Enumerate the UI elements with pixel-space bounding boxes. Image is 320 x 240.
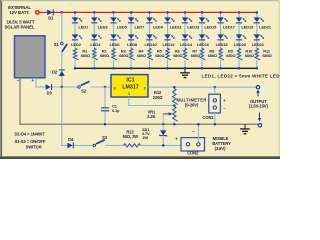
- wire: LED branch 8: [201, 12, 203, 68]
- ground (LED rail): [180, 68, 190, 78]
- svg-text:LED1, LED22 = 5mm WHITE LED: LED1, LED22 = 5mm WHITE LED: [202, 73, 281, 78]
- node: branch 2 bottom: [93, 67, 96, 70]
- node: branch 10 bottom: [238, 67, 241, 70]
- svg-text:LED21: LED21: [259, 25, 272, 30]
- svg-text:SWITCH: SWITCH: [26, 144, 42, 149]
- node: branch 11 top: [256, 11, 259, 14]
- node: branch 4 top: [130, 11, 133, 14]
- resistor R5 680ohm: [148, 48, 165, 59]
- LED LED7: [128, 17, 145, 29]
- svg-text:680Ω: 680Ω: [245, 53, 254, 58]
- LED LED20: [234, 34, 247, 47]
- svg-text:680Ω: 680Ω: [137, 53, 146, 58]
- op-amp regulator IC1 LM317: [111, 75, 148, 97]
- svg-text:680Ω: 680Ω: [191, 53, 200, 58]
- node: branch 8 top: [201, 11, 204, 14]
- wire: panel negative to ground rail (gray): [20, 78, 259, 124]
- wire: S3 to R13: [106, 144, 124, 146]
- LED LED12: [163, 34, 176, 47]
- svg-text:D1-D4 = 1N4007: D1-D4 = 1N4007: [15, 131, 46, 136]
- LED LED10: [145, 34, 158, 47]
- wire: D2 to node A: [61, 76, 63, 87]
- capacitor C1: [101, 87, 120, 124]
- label: OUTPUT 1.5V-15V: [249, 99, 269, 109]
- wire: IC1 pin1 adjust to R12/VR1 node: [129, 97, 175, 106]
- resistor R8 680ohm: [200, 48, 217, 59]
- node: branch 10 top: [238, 11, 241, 14]
- note: S1-S3 = ON/OFF SWITCH: [15, 139, 46, 149]
- svg-text:CON1: CON1: [203, 115, 215, 120]
- label: 16.5V 5 WATT SOLAR PANEL: [4, 19, 34, 29]
- node: branch 7 top: [184, 11, 187, 14]
- svg-text:2.2K: 2.2K: [147, 114, 155, 119]
- wire: CON2 negative up to ground rail: [197, 124, 199, 142]
- resistor R9 680ohm: [219, 48, 236, 59]
- wire: LED branch 2: [93, 12, 95, 68]
- node: R12 top junction: [173, 86, 176, 89]
- ground (power rail): [240, 124, 250, 134]
- diode D1: [47, 9, 54, 20]
- node: branch 2 top: [93, 11, 96, 14]
- switch S2: [78, 81, 90, 93]
- resistor R4 680ohm: [129, 48, 146, 59]
- node: rail junction to S1/D2: [61, 11, 64, 14]
- LED LED16: [197, 34, 210, 47]
- wire: S1 to D2: [61, 52, 63, 70]
- diode D3: [46, 84, 53, 96]
- svg-text:12V BATT.: 12V BATT.: [9, 10, 29, 15]
- wire: IC1 pin2 output line to OUTPUT terminal: [148, 86, 256, 88]
- svg-text:IC1: IC1: [126, 78, 134, 84]
- LED LED3: [91, 17, 108, 29]
- svg-text:1: 1: [128, 92, 130, 96]
- wire: top positive red rail: [39, 11, 257, 13]
- svg-text:680Ω: 680Ω: [81, 53, 90, 58]
- svg-text:LED12: LED12: [163, 42, 176, 47]
- LED LED19: [236, 17, 254, 29]
- wire: S2 to IC1 input: [90, 86, 111, 88]
- LED LED17: [217, 17, 235, 29]
- node: branch 3 bottom: [112, 67, 115, 70]
- svg-text:(1.5V-15V): (1.5V-15V): [249, 104, 269, 109]
- output arrow down: [258, 113, 262, 122]
- node: branch 11 bottom: [256, 67, 259, 70]
- switch S3: [93, 135, 108, 146]
- wire: node A down to charging line: [62, 87, 68, 145]
- switch S1: [54, 42, 67, 52]
- svg-text:LED3: LED3: [98, 25, 109, 30]
- node: branch 5 bottom: [148, 67, 151, 70]
- svg-text:LED22: LED22: [252, 42, 265, 47]
- svg-text:−: −: [17, 78, 20, 83]
- svg-text:50Ω, 2W: 50Ω, 2W: [123, 134, 139, 139]
- svg-text:+: +: [175, 136, 178, 141]
- svg-text:LED18: LED18: [216, 42, 229, 47]
- resistor R13 50ohm 2W: [123, 129, 141, 147]
- label: multimeter 0-20V: [177, 98, 207, 108]
- output arrow up: [256, 90, 260, 97]
- LED LED13: [182, 17, 200, 29]
- node: zener on charging line: [162, 144, 165, 147]
- svg-text:680Ω: 680Ω: [262, 53, 271, 58]
- LED LED5: [110, 17, 127, 29]
- label: EXTERNAL 12V BATT.: [8, 5, 31, 15]
- svg-text:2: 2: [144, 86, 146, 90]
- resistor R2 680ohm: [93, 48, 110, 59]
- svg-text:LED1: LED1: [78, 25, 89, 30]
- wire: CON1 bottom to ground rail: [214, 113, 216, 124]
- LED LED21: [254, 17, 272, 29]
- node: CON1 junction: [214, 86, 217, 89]
- svg-text:D2: D2: [52, 69, 58, 74]
- node: CON1 on ground rail: [214, 123, 217, 126]
- node: branch 1 top: [74, 11, 77, 14]
- node: VR1 bottom on ground rail: [173, 123, 176, 126]
- resistor R10 680ohm: [237, 48, 254, 59]
- LED LED18: [216, 34, 229, 47]
- output negative terminal: [258, 124, 261, 127]
- connector CON2: [175, 129, 204, 156]
- svg-text:LED11: LED11: [170, 25, 183, 30]
- node: C1 on ground rail: [104, 123, 107, 126]
- svg-text:LED14: LED14: [180, 42, 193, 47]
- diode D2: [52, 69, 65, 76]
- wire: rail junction down to S1: [61, 12, 63, 42]
- potentiometer VR1 2.2K: [147, 107, 178, 125]
- node: branch 6 top: [166, 11, 169, 14]
- svg-text:680Ω: 680Ω: [119, 53, 128, 58]
- svg-text:680Ω: 680Ω: [173, 53, 182, 58]
- resistor R6 680ohm: [166, 48, 183, 59]
- node: branch 3 top: [112, 11, 115, 14]
- svg-text:D4: D4: [68, 137, 74, 142]
- svg-text:LED10: LED10: [145, 42, 158, 47]
- svg-text:D1: D1: [48, 16, 54, 21]
- svg-text:S3: S3: [102, 135, 108, 140]
- LED LED2: [71, 34, 82, 47]
- wire: D4 to S3: [74, 144, 93, 146]
- label: mobile battery 3.6V: [212, 136, 231, 151]
- svg-text:LED4: LED4: [90, 42, 101, 47]
- resistor R1 680ohm: [73, 48, 90, 59]
- svg-text:LED13: LED13: [187, 25, 200, 30]
- wire: CON1 top to output line: [214, 87, 216, 94]
- svg-text:D3: D3: [47, 91, 53, 96]
- node: branch 5 top: [148, 11, 151, 14]
- svg-text:CON2: CON2: [187, 150, 199, 155]
- wire: LED branch 11: [256, 12, 258, 68]
- resistor R12 220ohm: [153, 89, 178, 105]
- node: branch 6 bottom: [166, 67, 169, 70]
- LED LED11: [164, 17, 182, 29]
- wire: LED branch 9: [220, 12, 222, 68]
- svg-text:0.1µ: 0.1µ: [112, 108, 120, 113]
- wire: R13 to CON2: [141, 144, 182, 146]
- svg-text:S2: S2: [81, 89, 87, 94]
- svg-text:LED16: LED16: [197, 42, 210, 47]
- node A junction: [61, 86, 64, 89]
- LED LED9: [146, 17, 163, 29]
- svg-text:S1: S1: [54, 42, 60, 47]
- wire: LED branch 7: [184, 12, 186, 68]
- node: branch 1 bottom: [74, 67, 77, 70]
- svg-text:LED6: LED6: [110, 42, 121, 47]
- svg-text:1W: 1W: [142, 135, 148, 140]
- node: branch 4 bottom: [130, 67, 133, 70]
- svg-text:680Ω: 680Ω: [208, 53, 217, 58]
- svg-text:LED17: LED17: [223, 25, 236, 30]
- wire: LED array bottom black rail: [75, 67, 257, 69]
- svg-text:LED5: LED5: [117, 25, 128, 30]
- resistor R3 680ohm: [112, 48, 129, 59]
- wire: panel positive down to D3 line: [36, 78, 46, 87]
- svg-text:+: +: [32, 78, 35, 83]
- svg-text:220Ω: 220Ω: [153, 95, 164, 100]
- svg-text:680Ω: 680Ω: [155, 53, 164, 58]
- external battery terminal: [36, 11, 39, 14]
- LED LED1: [72, 17, 89, 29]
- solar panel: [15, 36, 46, 83]
- svg-text:−: −: [192, 129, 195, 134]
- zener diode ZD1: [142, 124, 167, 145]
- wire: LED branch 10: [238, 12, 240, 68]
- svg-text:3: 3: [114, 86, 116, 90]
- LED LED6: [110, 34, 121, 47]
- wire: LED branch 1: [74, 12, 76, 68]
- node: branch 8 bottom: [201, 67, 204, 70]
- node: wiper/zener on ground rail: [162, 123, 165, 126]
- LED LED4: [90, 34, 101, 47]
- node: branch 9 bottom: [219, 67, 222, 70]
- resistor R11 680ohm: [255, 48, 272, 59]
- LED LED8: [127, 34, 138, 47]
- svg-text:LED7: LED7: [134, 25, 145, 30]
- LED LED15: [199, 17, 217, 29]
- svg-text:SOLAR PANEL: SOLAR PANEL: [4, 25, 34, 30]
- wire: LED branch 3: [113, 12, 115, 68]
- wire: D3 to node A: [52, 86, 78, 88]
- wire: LED branch 4: [130, 12, 132, 68]
- wire: LED branch 5: [149, 12, 151, 68]
- svg-text:(3.6V): (3.6V): [215, 146, 227, 151]
- svg-text:LED20: LED20: [234, 42, 247, 47]
- svg-text:LED8: LED8: [127, 42, 138, 47]
- node: branch 7 bottom: [184, 67, 187, 70]
- LED LED22: [252, 34, 265, 47]
- svg-text:(0-20V): (0-20V): [185, 102, 199, 107]
- wire: LED branch 6: [167, 12, 169, 68]
- svg-text:LED19: LED19: [241, 25, 254, 30]
- output positive terminal: [256, 86, 259, 89]
- resistor R7 680ohm: [183, 48, 200, 59]
- svg-text:LED9: LED9: [153, 25, 164, 30]
- node: branch 9 top: [219, 11, 222, 14]
- svg-text:680Ω: 680Ω: [226, 53, 235, 58]
- note: LED1, LED22 = 5mm WHITE LED: [202, 73, 281, 78]
- diode D4: [67, 137, 74, 148]
- svg-text:680Ω: 680Ω: [100, 53, 109, 58]
- svg-text:LM317: LM317: [122, 85, 139, 91]
- svg-text:LED15: LED15: [204, 25, 217, 30]
- node: CON2 on ground rail: [197, 123, 200, 126]
- LED LED14: [180, 34, 193, 47]
- svg-text:LED2: LED2: [71, 42, 82, 47]
- node: C1 tap junction: [104, 86, 107, 89]
- note: D1-D4 = 1N4007: [15, 131, 46, 136]
- node: ADJ junction: [173, 104, 176, 107]
- connector CON1: [203, 94, 227, 120]
